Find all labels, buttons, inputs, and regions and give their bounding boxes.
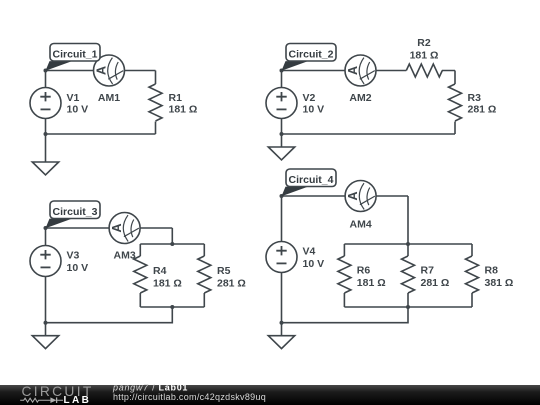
svg-text:10 V: 10 V — [67, 262, 89, 274]
label V3 10 V — [67, 250, 89, 275]
svg-text:AM2: AM2 — [349, 92, 371, 104]
label AM4 — [350, 218, 372, 230]
svg-text:R8: R8 — [485, 265, 499, 277]
wire bottom: R3 to V2 — [282, 133, 456, 135]
wire bottom rail (circuit 4) — [344, 306, 472, 308]
node label Circuit_4 — [282, 169, 337, 196]
resistor R5 — [198, 244, 211, 307]
wire top: node to AM3, AM3 to corner, corner down — [46, 228, 173, 244]
node junction bottom (circuit 2) — [280, 132, 284, 136]
svg-text:181 Ω: 181 Ω — [153, 278, 182, 290]
svg-text:381 Ω: 381 Ω — [485, 277, 514, 289]
resistor R3 — [449, 71, 462, 135]
CircuitLab logo wordmark — [22, 384, 94, 399]
label V4 10 V — [303, 246, 325, 271]
svg-text:281 Ω: 281 Ω — [421, 277, 450, 289]
wire top rail (circuit 3) — [140, 243, 204, 245]
svg-text:LAB: LAB — [64, 395, 92, 405]
svg-text:AM1: AM1 — [98, 92, 120, 104]
svg-text:AM4: AM4 — [350, 218, 372, 230]
svg-text:10 V: 10 V — [67, 104, 89, 116]
node junction bottom rail (circuit 3) — [170, 305, 174, 309]
node junction top rail (circuit 4) — [406, 242, 410, 246]
voltage source V1 — [30, 88, 61, 119]
wire: node down to V2 top — [281, 71, 283, 88]
wire top: node to ammeter and ammeter to R1 — [46, 70, 156, 72]
node junction top (circuit 3) — [44, 226, 48, 230]
label R8 381 ohm — [485, 265, 514, 290]
resistor R1 — [149, 71, 162, 135]
svg-text:R7: R7 — [421, 265, 435, 277]
node junction top rail (circuit 3) — [170, 242, 174, 246]
label R3 281 ohm — [468, 92, 497, 116]
svg-text:Circuit_2: Circuit_2 — [289, 48, 334, 60]
wire: node to ground — [281, 134, 283, 147]
label AM1 — [98, 92, 120, 104]
label V1 10 V — [67, 92, 89, 116]
footer title text — [112, 382, 266, 402]
wire: V4 bottom to bottom wire — [281, 273, 283, 323]
label R4 181 ohm — [153, 265, 182, 290]
svg-text:http://circuitlab.com/c42qzdsk: http://circuitlab.com/c42qzdskv89uq — [113, 392, 266, 402]
label R1 181 ohm — [169, 92, 198, 116]
ammeter AM2 — [345, 55, 376, 86]
node label Circuit_3 — [46, 201, 101, 228]
voltage source V3 — [30, 246, 61, 277]
label R6 181 ohm — [357, 265, 386, 290]
wire bottom rail (circuit 3) — [140, 306, 204, 308]
resistor R2 — [406, 64, 442, 77]
wire top rail (circuit 4) — [344, 243, 472, 245]
node junction top (circuit 1) — [44, 69, 48, 73]
wire top: node to AM2, AM2 to R2, R2 to corner — [282, 70, 456, 72]
node junction top (circuit 4) — [280, 194, 284, 198]
svg-text:AM3: AM3 — [114, 250, 136, 262]
svg-text:181 Ω: 181 Ω — [357, 277, 386, 289]
label V2 10 V — [303, 92, 325, 116]
svg-text:181 Ω: 181 Ω — [410, 50, 439, 62]
label R7 281 ohm — [421, 265, 450, 290]
wire: node to ground — [281, 323, 283, 336]
svg-text:281 Ω: 281 Ω — [217, 278, 246, 290]
wire: node down to V1 top — [45, 71, 47, 88]
wire top: node to AM4, AM4 to corner, corner down — [282, 196, 409, 244]
svg-text:181 Ω: 181 Ω — [169, 104, 198, 116]
ammeter AM3 — [109, 213, 140, 244]
wire bottom: R1 to V1 — [46, 133, 156, 135]
label AM3 — [114, 250, 136, 262]
wire: rail center down and left to V4 — [282, 307, 409, 323]
node junction bottom (circuit 1) — [44, 132, 48, 136]
svg-text:V1: V1 — [67, 92, 80, 104]
ground (circuit 1) — [32, 162, 58, 175]
svg-text:V2: V2 — [303, 92, 316, 104]
svg-text:10 V: 10 V — [303, 104, 325, 116]
ground (circuit 3) — [32, 336, 58, 349]
svg-text:Circuit_3: Circuit_3 — [53, 206, 98, 218]
svg-text:R3: R3 — [468, 92, 482, 104]
node junction top (circuit 2) — [280, 69, 284, 73]
svg-text:V3: V3 — [67, 250, 80, 262]
label R5 281 ohm — [217, 265, 246, 290]
svg-text:Circuit_1: Circuit_1 — [53, 48, 98, 60]
node label Circuit_1 — [46, 44, 101, 71]
svg-text:R4: R4 — [153, 265, 167, 277]
svg-text:10 V: 10 V — [303, 258, 325, 270]
label R2 181 ohm — [410, 37, 439, 62]
node label Circuit_2 — [282, 44, 337, 71]
logo LAB text — [64, 395, 92, 405]
resistor R7 — [402, 244, 415, 307]
resistor R4 — [134, 244, 147, 307]
wire: node to ground — [45, 323, 47, 336]
wire: V2 bottom to bottom rail — [281, 119, 283, 135]
wire: V3 bottom to bottom wire — [45, 277, 47, 323]
resistor R8 — [466, 244, 479, 307]
svg-text:R2: R2 — [417, 37, 431, 49]
node junction bottom-left (circuit 4) — [280, 321, 284, 325]
voltage source V4 — [266, 242, 297, 273]
svg-text:pangw7 / Lab01: pangw7 / Lab01 — [112, 382, 188, 392]
ammeter AM1 — [94, 55, 125, 86]
svg-text:281 Ω: 281 Ω — [468, 104, 497, 116]
label AM2 — [349, 92, 371, 104]
wire: node to ground — [45, 134, 47, 162]
svg-text:R5: R5 — [217, 265, 231, 277]
svg-text:V4: V4 — [303, 246, 316, 258]
wire: node down to V3 top — [45, 228, 47, 246]
wire: rail center down and left to V3 — [46, 307, 173, 323]
ground (circuit 4) — [268, 336, 294, 349]
logo resistor-diode glyph — [20, 397, 63, 403]
node junction bottom-left (circuit 3) — [44, 321, 48, 325]
ground (circuit 2) — [268, 147, 294, 160]
svg-text:Circuit_4: Circuit_4 — [289, 174, 334, 186]
svg-text:R1: R1 — [169, 92, 183, 104]
resistor R6 — [338, 244, 351, 307]
node junction bottom rail (circuit 4) — [406, 305, 410, 309]
wire: node down to V4 top — [281, 196, 283, 242]
svg-text:R6: R6 — [357, 265, 371, 277]
ammeter AM4 — [345, 181, 376, 212]
voltage source V2 — [266, 88, 297, 119]
wire: V1 bottom to bottom rail — [45, 119, 47, 135]
